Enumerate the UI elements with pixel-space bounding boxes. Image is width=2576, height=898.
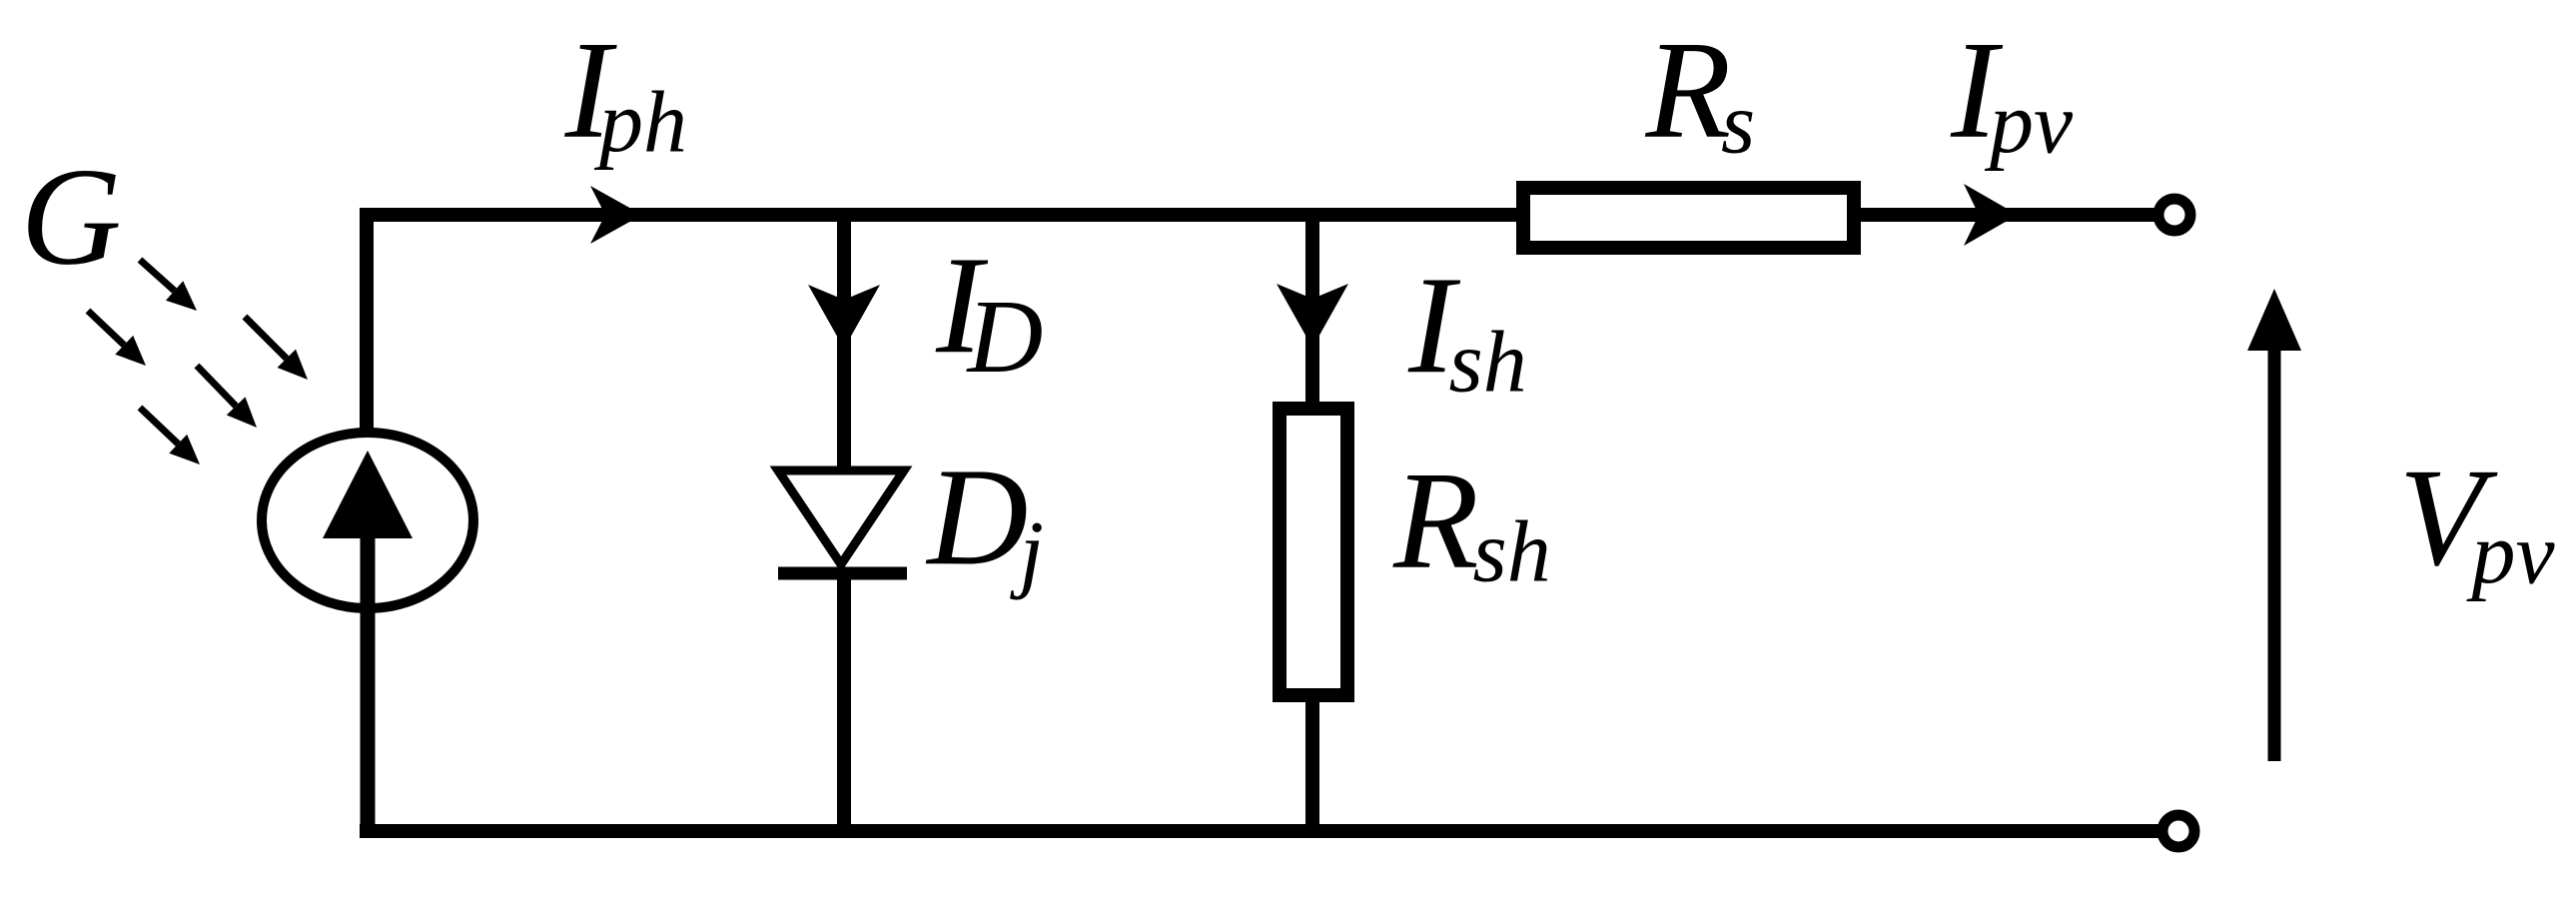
label Ipv	[1950, 13, 2074, 173]
current source U1 circle	[262, 433, 473, 608]
irradiance ray arrow 2	[88, 311, 146, 366]
Vpv arrow shaft	[2268, 340, 2281, 761]
arrow Ipv on output wire	[1964, 184, 2018, 246]
irradiance ray arrow 5	[140, 408, 200, 464]
label Rs	[1645, 13, 1756, 173]
wire: bottom bus	[360, 824, 2163, 838]
label Ish	[1407, 248, 1527, 411]
svg-text:pv: pv	[1984, 76, 2074, 173]
diode Dj cathode bar	[778, 567, 907, 580]
svg-text:R: R	[1645, 13, 1732, 168]
label Dj	[925, 440, 1044, 601]
arrow Ish on shunt branch	[1277, 284, 1348, 348]
diode Dj triangle	[778, 470, 904, 564]
label ID	[935, 228, 1043, 395]
wire: left vertical from top bus to current source	[360, 208, 374, 434]
current source U1 arrow shaft	[361, 529, 376, 838]
irradiance ray arrow 1	[140, 260, 197, 311]
svg-text:pv: pv	[2466, 506, 2556, 603]
svg-text:sh: sh	[1449, 315, 1527, 412]
svg-text:R: R	[1392, 444, 1479, 598]
svg-text:sh: sh	[1473, 504, 1551, 601]
label Iph	[564, 13, 687, 172]
arrow Iph on top bus	[590, 186, 642, 244]
svg-text:ph: ph	[593, 75, 687, 172]
irradiance ray arrow 3	[245, 317, 308, 380]
wire: diode branch upper	[837, 208, 851, 470]
label Rsh	[1392, 444, 1551, 601]
resistor Rsh body	[1280, 409, 1347, 695]
svg-text:D: D	[925, 440, 1028, 594]
current source U1 arrow head	[323, 450, 413, 538]
terminal node: positive output	[2158, 199, 2190, 231]
label Vpv	[2399, 441, 2556, 603]
wire: top bus from left corner to Rs	[360, 208, 1519, 222]
Vpv arrow head	[2247, 289, 2301, 351]
wire: diode branch lower	[837, 573, 851, 838]
svg-text:s: s	[1721, 76, 1755, 173]
irradiance ray arrow 4	[197, 366, 257, 428]
wire: shunt branch lower	[1305, 692, 1319, 838]
wire: top bus from Rs to output terminal	[1861, 208, 2159, 222]
svg-text:D: D	[966, 278, 1044, 395]
svg-text:G: G	[21, 140, 122, 295]
wire: shunt branch upper	[1305, 208, 1319, 412]
arrow ID on diode branch	[808, 285, 880, 349]
terminal node: negative output	[2162, 815, 2194, 847]
resistor Rs body	[1523, 188, 1854, 248]
